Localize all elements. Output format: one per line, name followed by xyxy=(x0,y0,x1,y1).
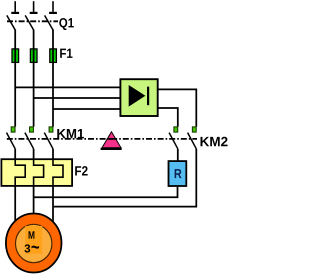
wire L3 vertical xyxy=(52,30,54,127)
delta symbol triangle xyxy=(102,132,121,148)
diode inside rectifier xyxy=(129,85,146,107)
label F1 xyxy=(60,49,72,58)
disconnect switch Q1 pole 3 xyxy=(45,1,57,30)
wire rectifier output lower to KM2 left xyxy=(158,108,178,127)
dash-dot over triangle xyxy=(107,138,117,140)
label F2 xyxy=(75,166,87,175)
contactor linkage dash-dot KM1 KM2 xyxy=(7,138,197,140)
contactor KM2 contact left xyxy=(169,127,178,161)
motor M 3-phase xyxy=(6,214,62,273)
contactor KM1 contact 1 xyxy=(7,127,16,159)
thermal overload F2 box xyxy=(1,159,72,186)
wire L2 to motor xyxy=(33,186,35,218)
wire L1 to motor xyxy=(14,186,16,228)
wire L1 vertical xyxy=(14,30,16,127)
contactor KM1 contact 2 xyxy=(25,127,34,159)
fuse F1 pole 2 xyxy=(30,49,37,63)
wire rectifier output upper to KM2 right xyxy=(158,89,197,126)
contactor KM2 contact right xyxy=(188,127,197,149)
wire tap L3 to rectifier xyxy=(53,108,121,110)
label KM2 xyxy=(201,137,228,146)
contactor KM1 contact 3 xyxy=(44,127,53,159)
wire L3 to motor xyxy=(52,186,54,224)
fuse F1 pole 3 xyxy=(50,49,57,63)
wire KM2 right down and across to L3 xyxy=(53,149,196,207)
F2 heater element 3 xyxy=(53,158,63,187)
wire tap L1 to rectifier xyxy=(15,86,121,88)
resistor R box xyxy=(169,161,187,186)
wire R down and across to L2 xyxy=(34,187,178,197)
disconnect switch Q1 pole 2 xyxy=(25,1,37,30)
fuse F1 pole 1 xyxy=(12,49,19,63)
wire tap L2 to rectifier xyxy=(34,97,121,99)
disconnect switch Q1 pole 1 xyxy=(7,1,19,30)
rectifier box xyxy=(120,79,157,116)
F2 heater element 2 xyxy=(34,158,44,187)
label R xyxy=(175,169,182,178)
label Q1 xyxy=(59,18,74,30)
Q1 mechanical linkage dash-dot xyxy=(7,20,58,22)
wire L2 vertical xyxy=(33,30,35,127)
F2 heater element 1 xyxy=(15,158,25,187)
label KM1 xyxy=(57,129,84,138)
